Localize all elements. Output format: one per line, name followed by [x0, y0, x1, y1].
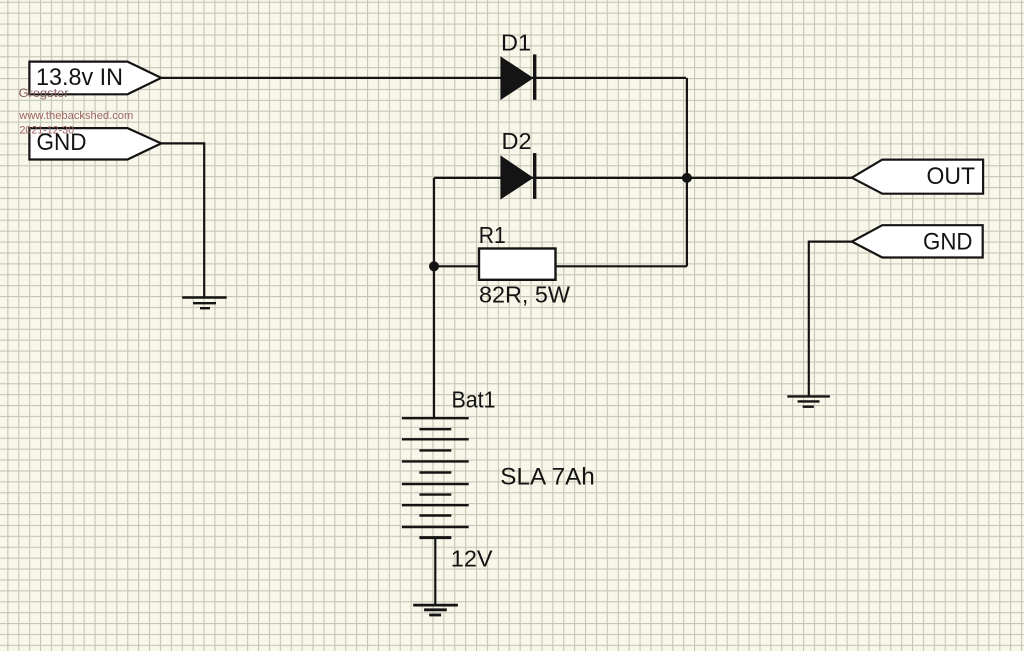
wire vertical from D1 corner down through OUT junction to R1 right wire level: [686, 78, 688, 266]
label D2: [502, 128, 532, 154]
junction node at R1 left: [429, 261, 439, 271]
value 82R, 5W: [479, 281, 571, 307]
diode D2: [501, 153, 535, 199]
battery Bat1: [402, 418, 469, 537]
svg-text:Gregster: Gregster: [19, 86, 69, 100]
net flag 13.8v IN: [29, 62, 161, 95]
svg-text:GND: GND: [923, 229, 973, 256]
wire from left vertical through D2 to OUT junction: [434, 177, 686, 179]
value 12V: [451, 545, 493, 571]
diode D1: [501, 54, 535, 99]
annotation www.thebackshed.com: [18, 110, 133, 122]
annotation Gregster: [19, 86, 69, 100]
svg-text:SLA 7Ah: SLA 7Ah: [500, 464, 595, 491]
svg-text:D2: D2: [502, 128, 532, 154]
ground symbol below GND left: [182, 298, 227, 309]
net flag GND right: [852, 225, 983, 257]
wire from R1 right terminal to vertical riser: [555, 265, 687, 267]
wire from R1 junction to R1 left terminal: [434, 265, 479, 267]
value SLA 7Ah: [500, 464, 595, 491]
wire from OUT junction to OUT flag tip: [686, 177, 852, 179]
wire from battery bottom terminal to ground: [434, 538, 436, 605]
annotation 2021-12-30: [20, 125, 75, 137]
svg-text:2021-12-30: 2021-12-30: [20, 125, 75, 137]
svg-text:12V: 12V: [451, 545, 493, 571]
svg-text:www.thebackshed.com: www.thebackshed.com: [18, 110, 133, 122]
svg-text:OUT: OUT: [927, 163, 976, 190]
net flag OUT: [852, 160, 983, 194]
wire vertical from D2 level down through R1 junction to battery top: [433, 178, 435, 418]
ground symbol below GND right: [787, 396, 830, 406]
svg-text:Bat1: Bat1: [452, 386, 496, 412]
ground symbol below battery: [413, 605, 458, 615]
svg-text:82R, 5W: 82R, 5W: [479, 281, 571, 307]
svg-text:R1: R1: [479, 222, 506, 248]
wire from GND left flag tip right then down to ground: [161, 143, 204, 297]
net flag GND left: [29, 128, 161, 159]
junction node at OUT: [682, 173, 692, 183]
label Bat1: [452, 386, 496, 412]
resistor R1: [479, 249, 556, 280]
svg-text:D1: D1: [501, 29, 531, 55]
wire from GND right flag tip left then down to ground: [809, 242, 852, 397]
label R1: [479, 222, 506, 248]
wire from 13.8v IN flag to D1 anode and on to right corner: [161, 77, 686, 79]
label D1: [501, 29, 531, 55]
